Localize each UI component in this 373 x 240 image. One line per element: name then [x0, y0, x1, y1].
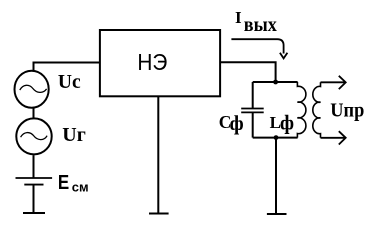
- sine symbol of Ug: [21, 133, 47, 140]
- capacitor Cf bottom plate: [241, 111, 264, 113]
- wire from Uc source top to NE box input: [34, 63, 101, 71]
- wire from NE box output to tank node: [221, 62, 276, 82]
- svg-text:см: см: [72, 179, 89, 194]
- node B bottom junction dot: [274, 135, 279, 140]
- battery Ecm short plate: [24, 184, 43, 186]
- wire from tank bottom node to right ground: [275, 138, 277, 214]
- secondary bottom lead arrow: [321, 137, 346, 139]
- sine symbol of Uc: [20, 85, 47, 92]
- nonlinear element box NE: [100, 30, 220, 96]
- svg-text:вых: вых: [244, 14, 277, 36]
- wire from battery to left ground: [33, 185, 35, 213]
- capacitor Cf top plate: [241, 108, 264, 110]
- transformer secondary coil: [313, 82, 321, 138]
- svg-text:ф: ф: [280, 112, 294, 135]
- wire between Uc and Ug sources: [33, 108, 35, 119]
- svg-text:Uпр: Uпр: [330, 100, 364, 122]
- svg-text:I: I: [235, 8, 242, 27]
- svg-text:E: E: [58, 172, 69, 194]
- inductor Lf primary coil: [297, 82, 306, 138]
- svg-text:Uc: Uc: [58, 72, 81, 93]
- output current arrow Ivyh: [231, 39, 283, 53]
- AC source Ug: [16, 118, 51, 154]
- svg-text:Uг: Uг: [62, 124, 86, 146]
- battery Ecm long plate: [16, 177, 53, 179]
- right ground: [267, 213, 287, 215]
- wire from Ug source to battery Ecm: [33, 155, 35, 178]
- middle ground: [149, 213, 169, 215]
- svg-text:ф: ф: [230, 112, 244, 135]
- capacitor Cf bottom lead: [252, 112, 254, 137]
- node A top junction dot: [273, 80, 278, 85]
- svg-text:НЭ: НЭ: [137, 49, 167, 75]
- AC source Uc: [15, 71, 49, 108]
- tank top wire: [253, 81, 298, 83]
- tank bottom wire: [253, 137, 298, 139]
- left ground: [23, 212, 45, 214]
- capacitor Cf top lead: [252, 82, 254, 108]
- secondary top lead arrow: [321, 81, 346, 83]
- wire from NE box bottom to middle ground: [157, 96, 159, 213]
